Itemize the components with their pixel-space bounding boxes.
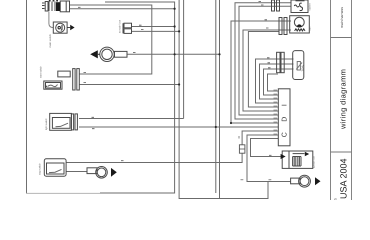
svg-text:TPS: TPS <box>301 65 305 71</box>
svg-text:main harness: main harness <box>340 7 344 28</box>
junction node B <box>174 25 176 27</box>
dark element inside U1 <box>56 2 60 11</box>
wire vertical v183.6 <box>183 0 185 119</box>
svg-text:ignition coil: ignition coil <box>313 156 316 168</box>
arrow right of main switch <box>67 27 70 29</box>
CDI pin labels <box>274 90 278 134</box>
CDI unit <box>278 89 290 146</box>
eyelet ground G3 bottom-right <box>291 175 311 187</box>
wire stop switch long to fuse to CDI pin131 <box>66 131 278 163</box>
wire h3 comp1 to bus <box>70 8 175 10</box>
wire comp3 lower <box>79 84 179 86</box>
light switch S3 <box>50 113 78 130</box>
svg-text:stop switch: stop switch <box>39 163 42 175</box>
ignition coil T1 <box>282 151 313 168</box>
junction node E <box>218 53 220 55</box>
horn H1 <box>279 16 309 35</box>
wire light switch top <box>79 118 184 120</box>
svg-text:flasher: flasher <box>309 3 312 10</box>
stop switch S4 <box>44 159 66 176</box>
wire comp7 pin2 <box>132 30 180 32</box>
label ticks wire codes <box>78 2 272 180</box>
wire bottom ground run + top h1 <box>100 2 175 193</box>
svg-text:USA 2004: USA 2004 <box>339 158 349 199</box>
wire horn top <box>231 21 291 123</box>
wire CDI pin135 to eyelet <box>247 135 291 182</box>
wire CDI pin138 to coil feed <box>251 139 283 157</box>
svg-text:to main fuse: to main fuse <box>119 19 122 33</box>
svg-text:start switch: start switch <box>40 65 43 78</box>
junction node A <box>174 8 176 10</box>
junction node C <box>178 30 180 32</box>
U1 top pins cut at edge <box>49 0 58 2</box>
wire flasher top to CDI pin119 <box>235 3 291 119</box>
svg-text:5: 5 <box>334 198 338 200</box>
wire comp7 pin1 <box>132 26 175 28</box>
junction node H <box>230 122 232 124</box>
svg-text:light switch: light switch <box>45 118 48 130</box>
svg-text:horn: horn <box>309 26 312 31</box>
eyelet ground G2 bottom-left <box>87 167 107 179</box>
svg-text:wiring diagramm: wiring diagramm <box>339 69 348 130</box>
wire vertical v219.5 <box>219 0 221 199</box>
brake switch S2 <box>44 69 80 90</box>
wire TPS 2 to CDI pin99 <box>260 64 294 99</box>
wire light switch bottom to CDI pin127 <box>79 126 278 128</box>
frame left border <box>26 0 28 193</box>
wire bottom faint left <box>26 192 100 194</box>
flasher relay K1 <box>272 0 309 13</box>
main switch S1 (circle component) <box>53 22 67 33</box>
wire bottom lower run <box>179 0 268 199</box>
svg-text:main switch: main switch <box>49 33 52 47</box>
wire eyelet bus y54 <box>127 53 220 55</box>
coil inner arrow <box>305 152 309 156</box>
coil entry arrow <box>281 154 286 159</box>
wire corner A to CDI pin107 <box>248 32 279 108</box>
eyelet ground G1 mid-left <box>98 47 127 61</box>
title block <box>331 0 352 200</box>
wire vertical v215.8 <box>215 0 217 193</box>
wire U1 down to main switch <box>49 12 53 28</box>
junction node G <box>215 126 217 128</box>
wire TPS 3 to CDI pin95 <box>264 69 294 95</box>
connector X1 (comp7) <box>123 23 132 33</box>
TPS sensor <box>277 51 304 80</box>
wire stop switch to eyelet <box>66 171 87 173</box>
component block U1 top-left (regulator) <box>42 1 70 12</box>
wire stub to CDI pin91 <box>268 74 279 91</box>
wire horn bottom to CDI pin111 <box>243 30 291 111</box>
junction node F <box>178 83 180 85</box>
fuse F1 <box>239 145 245 153</box>
wire h2 comp1 to comp3 <box>70 5 152 74</box>
wire TPS 1 to CDI pin103 <box>256 59 294 103</box>
svg-text:CDI: CDI <box>281 94 288 138</box>
wire flasher bottom to CDI pin115 <box>239 6 291 115</box>
junction node D <box>174 53 176 55</box>
